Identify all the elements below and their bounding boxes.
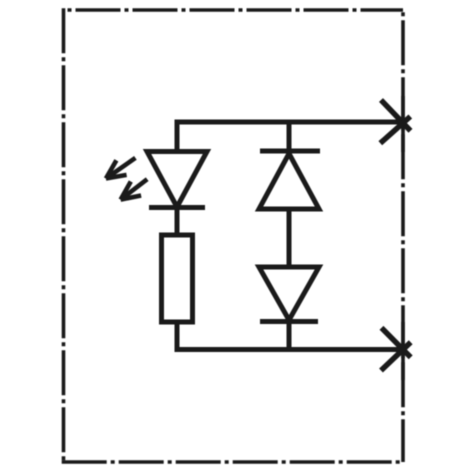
wire solid border segment at X1 <box>401 96 405 152</box>
terminal X1 top-right cross <box>380 100 410 143</box>
LED D1 triangle <box>147 152 207 208</box>
LED D1 cathode bar <box>149 205 205 210</box>
LED D1 emission arrow 1 <box>106 158 135 179</box>
wire between diodes <box>287 209 292 269</box>
wire bottom horizontal <box>175 347 404 352</box>
wire solid border segment at X2 <box>401 322 405 380</box>
wire resistor to bottom stub <box>175 322 180 350</box>
diode D3 triangle (pointing down) <box>259 267 319 320</box>
diode D3 cathode bar <box>260 319 318 324</box>
resistor R1 body <box>162 235 193 322</box>
wire right branch top stub <box>287 122 292 153</box>
enclosure dashed border right edge <box>401 8 405 462</box>
wire diode to bottom stub <box>287 322 292 350</box>
enclosure dashed border left edge <box>62 8 66 462</box>
diode D2 triangle (pointing up) <box>259 154 319 210</box>
enclosure dashed border bottom edge <box>62 460 403 464</box>
wire top horizontal <box>175 120 404 125</box>
enclosure dashed border top edge <box>64 8 404 12</box>
terminal X2 bottom-right cross <box>381 328 411 371</box>
LED D1 emission arrow 2 <box>121 179 148 199</box>
diode D2 cathode bar <box>260 149 320 154</box>
wire LED branch top stub <box>175 122 180 153</box>
wire LED to resistor stub <box>175 208 180 238</box>
